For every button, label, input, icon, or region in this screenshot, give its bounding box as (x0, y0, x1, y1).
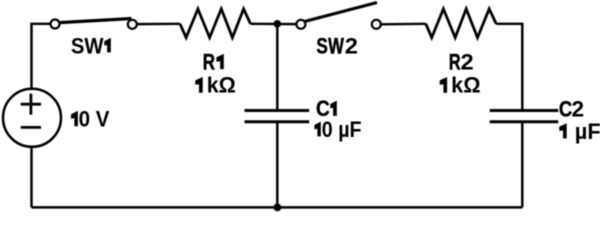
svg-text:2: 2 (461, 49, 474, 74)
svg-text:1 kΩ: 1 kΩ (189, 72, 236, 97)
svg-text:10 V: 10 V (67, 107, 110, 132)
svg-text:2: 2 (572, 97, 585, 122)
svg-text:W: W (328, 34, 344, 59)
svg-text:S: S (316, 34, 327, 59)
svg-text:R: R (449, 50, 461, 75)
svg-text:2: 2 (345, 33, 358, 58)
svg-text:1 kΩ: 1 kΩ (433, 73, 480, 98)
